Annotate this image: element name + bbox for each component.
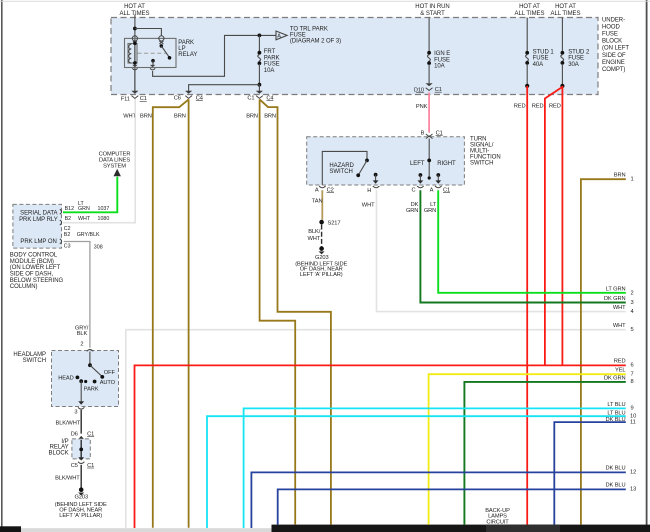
I/P RELAY BLOCK dashed box [72, 439, 90, 459]
svg-text:LP: LP [178, 46, 185, 52]
svg-text:ALL TIMES: ALL TIMES [515, 11, 545, 17]
svg-text:10A: 10A [434, 64, 445, 70]
svg-text:C6: C6 [174, 95, 181, 101]
svg-text:1080: 1080 [98, 216, 110, 222]
svg-text:7: 7 [631, 371, 634, 377]
headlamp switch internals [76, 352, 105, 405]
svg-text:PARK: PARK [178, 40, 194, 46]
svg-text:LT GRN: LT GRN [606, 286, 626, 292]
headlamp switch label [13, 352, 46, 364]
terminal 1 label BRN [614, 173, 634, 183]
connector A/C1 pin [430, 186, 450, 193]
svg-text:11: 11 [630, 420, 636, 426]
wire WHT circuit 1080 F11 to BCM [63, 99, 135, 223]
svg-text:12: 12 [630, 470, 636, 476]
svg-text:SYSTEM: SYSTEM [103, 164, 126, 170]
arrow computer data lines [114, 169, 121, 176]
svg-text:6: 6 [631, 363, 634, 369]
bottom scrollbar gray track [21, 528, 272, 532]
svg-text:SWITCH: SWITCH [329, 169, 352, 175]
svg-text:TO TRL PARK: TO TRL PARK [290, 26, 328, 32]
STUD 1 FUSE 40A [525, 18, 554, 86]
svg-text:LAMPS: LAMPS [488, 513, 507, 519]
connector A/C2 hazard pin [315, 186, 334, 193]
svg-text:BLOCK: BLOCK [602, 39, 622, 45]
svg-text:F11: F11 [121, 97, 130, 103]
wire BLK/WHT S217 to G203 (broken) [321, 225, 323, 247]
svg-text:PARK: PARK [264, 55, 280, 61]
BCM location label [10, 253, 64, 291]
hazard switch label [329, 163, 354, 175]
splice S217 [319, 220, 340, 227]
FRT PARK FUSE 10A [258, 35, 280, 84]
label COMPUTER DATA LINES SYSTEM [99, 152, 131, 170]
svg-text:TAN: TAN [312, 199, 323, 205]
svg-text:S217: S217 [328, 221, 341, 227]
svg-text:BRN: BRN [614, 173, 626, 179]
wire LT BLU to terminal 10 [207, 416, 626, 528]
svg-text:BLK/WHT: BLK/WHT [56, 421, 81, 427]
svg-text:8: 8 [631, 379, 634, 385]
svg-text:DK BLU: DK BLU [606, 483, 626, 489]
wire BRN C1 left branch jog [260, 99, 296, 524]
svg-text:(ON LOWER LEFT: (ON LOWER LEFT [10, 265, 61, 271]
svg-text:RELAY: RELAY [178, 52, 197, 58]
relay pin terminal top-right (30) [159, 36, 164, 44]
svg-text:SIDE OF DASH,: SIDE OF DASH, [10, 272, 54, 278]
wire relay feed branch to switch pin [135, 29, 162, 37]
svg-text:WHT: WHT [613, 305, 626, 311]
terminal 4 label WHT [613, 305, 634, 315]
wire RED stud2 diagonal branch [545, 87, 563, 366]
svg-text:SWITCH: SWITCH [23, 358, 46, 364]
svg-text:2: 2 [631, 290, 634, 296]
svg-text:HOT AT: HOT AT [124, 4, 145, 10]
svg-text:MULTI-: MULTI- [470, 149, 489, 155]
svg-text:B2: B2 [65, 216, 72, 222]
svg-text:BODY CONTROL: BODY CONTROL [10, 253, 58, 259]
node junction under FRT fuse [258, 83, 262, 87]
label HOT AT ALL TIMES (left) [120, 4, 150, 17]
svg-text:RED: RED [614, 358, 626, 364]
wire through relay block [78, 440, 84, 464]
svg-text:3: 3 [631, 300, 634, 306]
wire PNK ign feed [428, 93, 430, 133]
BODY CONTROL MODULE dashed box [13, 204, 62, 248]
svg-text:WHT: WHT [362, 203, 375, 209]
wire hot feed into relay [134, 15, 136, 92]
terminal 11 label DK BLU [606, 417, 636, 426]
relay label [178, 40, 197, 58]
svg-text:FUSE: FUSE [264, 62, 280, 68]
connector D10/C1 under IGN E fuse [414, 83, 442, 93]
svg-text:FUSE: FUSE [568, 56, 584, 62]
headlamp position labels [58, 370, 115, 393]
svg-text:C: C [411, 187, 415, 193]
STUD 2 FUSE 30A [561, 18, 590, 86]
turn signal A contact with arrow [435, 173, 441, 184]
wire DK BLU to terminal 12 [251, 472, 625, 528]
svg-text:& START: & START [420, 11, 445, 17]
svg-text:BRN: BRN [264, 114, 276, 120]
wire BRN C1 right branch jog [260, 99, 331, 524]
svg-text:BLK/: BLK/ [308, 229, 320, 235]
svg-text:FRT: FRT [264, 49, 276, 55]
BCM internal labels [19, 211, 58, 245]
svg-text:SIGNAL/: SIGNAL/ [470, 142, 494, 148]
svg-text:YEL: YEL [615, 367, 625, 373]
svg-text:AUTO: AUTO [100, 380, 116, 386]
svg-text:5: 5 [631, 327, 634, 333]
bottom bar lighter segment [486, 525, 560, 532]
wire LT GRN circuit 1037 BCM to data lines [63, 177, 117, 213]
svg-text:FUSE: FUSE [434, 57, 450, 63]
HEADLAMP SWITCH dashed box [52, 351, 119, 407]
BCM pin bracket B12 [60, 209, 62, 214]
wire RED to terminal 6 [135, 365, 626, 528]
svg-text:30A: 30A [568, 62, 579, 68]
svg-text:HOOD: HOOD [602, 24, 621, 30]
node stud2 output [560, 84, 564, 88]
svg-text:RED: RED [549, 104, 561, 110]
bottom black bar [272, 525, 650, 532]
connector C5/C1 [71, 463, 94, 469]
svg-text:G203: G203 [75, 494, 89, 500]
connector C pin [411, 186, 423, 193]
svg-text:G203: G203 [315, 255, 329, 261]
wire TAN hazard to S217 [321, 190, 323, 220]
svg-text:PRK LMP RLY: PRK LMP RLY [19, 217, 58, 223]
page top border faint [0, 0, 650, 3]
hazard switch wiring [322, 151, 378, 184]
svg-text:HAZARD: HAZARD [329, 163, 354, 169]
node left contact [427, 159, 431, 163]
svg-text:40A: 40A [533, 62, 544, 68]
connector C1/C4 at fuse block edge [247, 91, 273, 102]
svg-text:C3: C3 [64, 243, 71, 249]
terminal 7 label YEL [615, 367, 634, 377]
svg-text:CIRCUIT: CIRCUIT [486, 520, 509, 526]
svg-text:BLK/WHT: BLK/WHT [55, 475, 80, 481]
svg-text:PARK: PARK [84, 386, 99, 392]
svg-text:H: H [367, 188, 371, 194]
svg-text:GRN: GRN [78, 206, 90, 212]
connector H pin [367, 186, 379, 194]
relay pin terminal top-left (86) [132, 36, 137, 44]
turn signal C contact with arrow [418, 173, 424, 184]
wire LT BLU to terminal 9 [244, 408, 626, 528]
svg-text:SWITCH: SWITCH [470, 161, 493, 167]
svg-text:UNDER-: UNDER- [602, 17, 625, 23]
wire DK BLU to terminal 11 [554, 422, 626, 524]
svg-text:B2: B2 [64, 232, 71, 238]
svg-text:GRN: GRN [406, 208, 418, 214]
svg-text:ALL TIMES: ALL TIMES [551, 11, 581, 17]
svg-text:1037: 1037 [98, 206, 110, 212]
wire relay 85 to F11 [134, 71, 136, 91]
wire color label LT GRN stacked [424, 202, 437, 214]
headlamp pin 2 [80, 342, 93, 352]
wire BLK/WHT relay block to G203 [80, 465, 82, 488]
svg-text:A: A [277, 34, 281, 40]
IGN E FUSE 10A [427, 18, 450, 84]
svg-text:HEADLAMP: HEADLAMP [13, 352, 46, 358]
ground G203 (center) [295, 246, 347, 278]
connector B/C1 at turn signal top [421, 130, 443, 138]
page left border [1, 0, 3, 527]
relay switch arm [151, 44, 171, 65]
BCM pin bracket B2 [60, 220, 62, 225]
wire WHT turn signal H to terminal 4 [377, 190, 626, 311]
label TO TRL PARK FUSE [290, 26, 341, 44]
svg-text:OFF: OFF [104, 370, 116, 376]
svg-text:COMPT): COMPT) [602, 67, 625, 73]
svg-text:BLK: BLK [77, 331, 88, 337]
wire DK BLU to terminal 13 [278, 489, 626, 524]
svg-text:DK BLU: DK BLU [606, 417, 626, 423]
svg-text:LT BLU: LT BLU [607, 410, 625, 416]
svg-text:HOT AT: HOT AT [555, 4, 576, 10]
svg-text:1: 1 [631, 177, 634, 183]
UNDERHOOD FUSE BLOCK dashed box [111, 18, 598, 95]
svg-text:SIDE OF: SIDE OF [602, 53, 626, 59]
relay pin bottom-mid (87) arrow [150, 65, 155, 70]
svg-text:HOT IN RUN: HOT IN RUN [415, 4, 449, 10]
wire relay 87 output to fuse line [153, 35, 276, 76]
wire BLK/WHT headlamp to relay block [80, 410, 82, 434]
svg-text:MODULE (BCM): MODULE (BCM) [10, 259, 54, 265]
svg-text:D6: D6 [71, 432, 78, 438]
arrow A to TRL PARK FUSE [276, 31, 287, 40]
svg-text:(ON LEFT: (ON LEFT [602, 46, 629, 52]
wire color label BLK/WHT stacked [308, 229, 321, 242]
relay coil [128, 41, 137, 65]
svg-text:HEAD: HEAD [58, 376, 73, 382]
label HOT AT ALL TIMES (stud 2) [551, 4, 581, 17]
label GRY/BLK stacked above headlamp [75, 325, 89, 336]
svg-text:C5: C5 [71, 463, 78, 469]
wire DK GRN to terminal 8 [464, 382, 625, 525]
svg-text:DK BLU: DK BLU [606, 465, 626, 471]
svg-text:FUSE: FUSE [290, 32, 306, 38]
svg-text:WHT: WHT [78, 216, 91, 222]
underhood fuse block label [602, 17, 629, 73]
svg-text:DK GRN: DK GRN [604, 376, 626, 382]
label HOT IN RUN & START [415, 4, 449, 17]
svg-text:FUSE: FUSE [602, 32, 618, 38]
svg-text:TURN: TURN [470, 136, 486, 142]
BCM pin labels [64, 201, 110, 251]
svg-text:RED: RED [514, 104, 526, 110]
svg-text:10: 10 [630, 413, 636, 419]
svg-text:LT BLU: LT BLU [607, 402, 625, 408]
headlamp pin 3 [74, 407, 84, 415]
terminal 12 label DK BLU [606, 465, 637, 475]
svg-text:ENGINE: ENGINE [602, 60, 625, 66]
page right border [646, 0, 648, 525]
BCM pin bracket C3 [60, 239, 62, 244]
wire fuse output to C6 [189, 85, 260, 91]
wire turn signal common from B [428, 139, 430, 179]
bottom scrollbar black left square [0, 526, 21, 532]
svg-text:10A: 10A [264, 68, 275, 74]
svg-text:PNK: PNK [416, 104, 428, 110]
wire fuse output to C1 [258, 85, 260, 91]
svg-text:BRN: BRN [140, 114, 152, 120]
svg-text:3: 3 [74, 410, 77, 416]
svg-text:PRK LMP ON: PRK LMP ON [20, 239, 56, 245]
svg-text:A: A [315, 187, 319, 193]
terminal 10 label LT BLU [607, 410, 636, 419]
svg-text:LEFT: LEFT [410, 161, 425, 167]
connector C6/C4 at fuse block edge [174, 91, 203, 102]
svg-text:RED: RED [532, 104, 544, 110]
svg-text:BELOW STEERING: BELOW STEERING [10, 278, 64, 284]
terminal 5 label WHT [613, 323, 634, 333]
wire RED stud1 down [526, 86, 528, 525]
terminal 2 label LT GRN [606, 286, 634, 296]
svg-text:STUD 1: STUD 1 [533, 49, 555, 55]
svg-text:A: A [430, 187, 434, 193]
wire BRN C6 to left branch [153, 99, 189, 527]
svg-text:RIGHT: RIGHT [437, 161, 456, 167]
I/P relay block label [49, 439, 69, 457]
wire DK GRN turn signal C to terminal 3 [420, 190, 625, 302]
label BACK-UP LAMPS CIRCUIT [485, 508, 510, 526]
svg-text:WHT: WHT [308, 236, 321, 242]
svg-text:BRN: BRN [246, 114, 258, 120]
relay PARK LP RELAY box [125, 38, 177, 67]
node stud1 output [525, 84, 529, 88]
node common end [428, 176, 431, 179]
wire BRN to terminal 1 [581, 179, 626, 524]
svg-text:COLUMN): COLUMN) [10, 284, 38, 290]
terminal 9 label LT BLU [607, 402, 633, 412]
svg-text:GRY/BLK: GRY/BLK [77, 232, 100, 238]
svg-text:SERIAL DATA: SERIAL DATA [20, 211, 57, 217]
wire LT GRN turn signal A to terminal 2 [438, 190, 626, 293]
node junction relay feed [133, 27, 137, 31]
wire color label DK GRN stacked [406, 202, 419, 214]
svg-text:BLOCK: BLOCK [49, 450, 69, 456]
connector F11/C1 at fuse block edge [121, 91, 147, 103]
connector D6/C1 [71, 432, 94, 440]
svg-text:4: 4 [631, 309, 634, 315]
svg-text:LEFT 'A' PILLAR): LEFT 'A' PILLAR) [300, 272, 343, 278]
svg-text:FUNCTION: FUNCTION [470, 155, 501, 161]
svg-text:C1: C1 [247, 95, 254, 101]
turn signal switch label [470, 136, 501, 166]
terminal 8 label DK GRN [604, 376, 634, 385]
ground G203 (left) [55, 487, 107, 519]
svg-text:308: 308 [94, 244, 103, 250]
svg-text:B: B [421, 130, 425, 136]
svg-text:9: 9 [631, 406, 634, 412]
wire RED stud2 down [561, 86, 563, 366]
svg-text:HOT AT: HOT AT [519, 4, 540, 10]
relay internal dashed link [138, 52, 167, 54]
svg-text:FUSE: FUSE [533, 56, 549, 62]
wire BRN C6 straight down [188, 99, 190, 527]
svg-text:IGN E: IGN E [434, 51, 450, 57]
svg-text:B12: B12 [65, 206, 74, 212]
svg-text:LEFT 'A' PILLAR): LEFT 'A' PILLAR) [59, 513, 102, 519]
svg-text:2: 2 [80, 342, 83, 348]
label HOT AT ALL TIMES (stud 1) [515, 4, 545, 17]
terminal 3 label DK GRN [604, 296, 634, 306]
node junction at FRT fuse top [258, 34, 262, 38]
svg-text:BRN: BRN [174, 114, 186, 120]
wire GRY/BLK circuit 308 BCM to headlamp switch [64, 242, 90, 348]
wire WHT to terminal 5 [126, 330, 626, 528]
svg-text:(DIAGRAM 2 OF 3): (DIAGRAM 2 OF 3) [290, 39, 341, 45]
wire YEL to terminal 7 [429, 374, 626, 524]
terminal 6 label RED [614, 358, 634, 368]
relay pin bottom-left (85) arrow [132, 65, 137, 70]
svg-text:DK GRN: DK GRN [604, 296, 626, 302]
svg-text:STUD 2: STUD 2 [568, 49, 590, 55]
terminal 13 label DK BLU [606, 483, 637, 493]
svg-text:13: 13 [630, 487, 636, 493]
TURN SIGNAL MULTIFUNCTION SWITCH dashed box [307, 137, 465, 185]
svg-text:WHT: WHT [613, 323, 626, 329]
svg-text:GRN: GRN [424, 208, 436, 214]
